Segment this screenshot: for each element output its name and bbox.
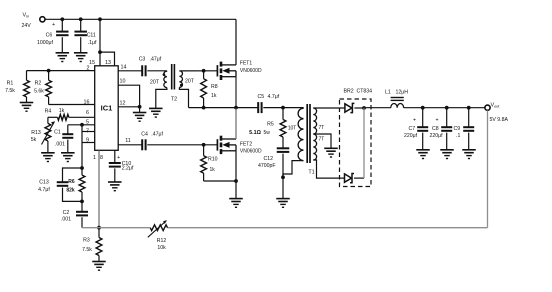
svg-text:8: 8 <box>100 155 103 161</box>
svg-text:T1: T1 <box>308 169 314 175</box>
capacitor C10 <box>109 150 134 182</box>
node pin12 gnd <box>138 105 142 109</box>
pin 10 label <box>120 79 126 85</box>
svg-text:+: + <box>117 155 120 161</box>
svg-text:.1: .1 <box>456 133 460 139</box>
node C8 top <box>445 106 449 110</box>
node feedback-R3 <box>97 226 101 230</box>
node R10 top <box>202 143 206 147</box>
resistor R4 <box>45 108 95 120</box>
wire rail to FET1 drain <box>235 19 237 65</box>
svg-text:CT834: CT834 <box>357 89 373 95</box>
svg-text:7.5k: 7.5k <box>5 88 15 94</box>
svg-text:L1: L1 <box>385 90 391 96</box>
transformer T1 core <box>307 104 310 163</box>
node snubber bottom <box>281 175 285 179</box>
svg-text:10: 10 <box>120 79 126 85</box>
transformer T1 secondary <box>308 108 324 175</box>
pin 16 label <box>84 100 90 106</box>
ground pin12 <box>133 113 147 122</box>
ground R13 <box>41 153 55 162</box>
wire pin16 <box>49 104 95 106</box>
svg-text:.47μf: .47μf <box>151 132 163 138</box>
wire C5 to T1 <box>263 107 303 109</box>
wire pin9 <box>82 142 95 144</box>
capacitor C12 <box>258 137 289 177</box>
svg-text:12: 12 <box>120 100 126 106</box>
ground C1 <box>61 153 75 162</box>
svg-text:14: 14 <box>121 64 127 70</box>
wire node5 down <box>81 125 83 168</box>
svg-text:C8: C8 <box>432 126 439 132</box>
capacitor C11 <box>74 19 97 52</box>
capacitor C6 <box>37 19 69 52</box>
wire feedback bottom left <box>82 227 150 229</box>
svg-text:C5: C5 <box>258 94 265 100</box>
node C9 top <box>467 106 471 110</box>
node pin15-13 <box>98 50 102 54</box>
resistor R6 <box>66 168 85 201</box>
svg-text:C11: C11 <box>87 32 96 38</box>
svg-text:C6: C6 <box>46 32 53 38</box>
svg-text:5.6k: 5.6k <box>34 88 44 94</box>
wire pin1 down <box>98 150 100 227</box>
node R8 bottom <box>202 106 206 110</box>
svg-text:VN0600D: VN0600D <box>240 149 262 155</box>
svg-text:4.7μf: 4.7μf <box>38 187 50 193</box>
wire T1 sec bottom <box>313 160 344 178</box>
svg-text:R3: R3 <box>83 238 90 244</box>
capacitor C7 <box>404 108 428 150</box>
svg-text:C4: C4 <box>141 132 148 138</box>
svg-text:20T: 20T <box>150 80 160 86</box>
svg-text:6: 6 <box>86 110 89 116</box>
capacitor C8 <box>430 108 453 150</box>
svg-text:12μH: 12μH <box>396 90 409 96</box>
svg-text:1: 1 <box>93 155 96 161</box>
svg-text:13: 13 <box>105 60 111 66</box>
wire top rail <box>45 18 236 20</box>
svg-text:C12: C12 <box>264 156 274 162</box>
ground C9 <box>462 150 476 159</box>
capacitor C3 <box>118 56 167 76</box>
node rail-C11 <box>79 17 83 21</box>
node snubber top <box>281 106 285 110</box>
wire pin2 <box>27 70 95 72</box>
capacitor C1 <box>54 125 73 153</box>
svg-text:BR2: BR2 <box>344 89 354 95</box>
ground R1 <box>20 103 34 112</box>
ground C10 <box>108 182 122 191</box>
svg-text:C13: C13 <box>39 179 49 185</box>
svg-text:1k: 1k <box>211 93 217 99</box>
wire L1 to Vout <box>404 107 485 109</box>
terminal Vin <box>22 13 46 30</box>
svg-text:+: + <box>413 117 416 123</box>
wire feedback bottom right <box>168 227 488 229</box>
svg-text:.001: .001 <box>55 141 65 147</box>
wire pin12 <box>118 106 139 108</box>
svg-text:24V: 24V <box>22 23 32 29</box>
svg-text:+: + <box>436 117 439 123</box>
wire snubber gnd <box>282 177 284 198</box>
svg-text:R4: R4 <box>45 108 52 114</box>
wire feedback right <box>487 110 489 227</box>
svg-text:220μf: 220μf <box>430 133 444 139</box>
wire rail to pin15 <box>99 19 101 66</box>
capacitor C5 <box>258 94 280 113</box>
wire T2 return <box>189 107 237 109</box>
svg-text:VN0600D: VN0600D <box>240 68 262 74</box>
node pin5-7 <box>80 123 84 127</box>
wire half-bridge to FET2 drain <box>235 108 237 139</box>
svg-text:.001: .001 <box>61 216 71 222</box>
node rail-C6 <box>60 17 64 21</box>
svg-text:C9: C9 <box>454 126 461 132</box>
resistor R1 <box>5 71 29 103</box>
svg-text:5w: 5w <box>264 130 271 136</box>
node FET2 source-R10 <box>234 179 238 183</box>
wire D1 cathode <box>354 107 364 109</box>
svg-text:C3: C3 <box>139 56 146 62</box>
ground T1 primary <box>276 199 290 208</box>
svg-text:R12: R12 <box>157 238 167 244</box>
resistor R2 <box>34 71 51 105</box>
svg-text:4.7μf: 4.7μf <box>268 94 280 100</box>
pin 7 label <box>86 128 89 134</box>
svg-text:R13: R13 <box>31 130 41 136</box>
diode D2 <box>345 174 355 183</box>
svg-text:7.5k: 7.5k <box>82 247 92 253</box>
svg-text:7T: 7T <box>319 136 325 142</box>
svg-text:5.1Ω: 5.1Ω <box>249 130 261 136</box>
node rail-IC <box>98 17 102 21</box>
svg-text:10T: 10T <box>288 125 297 131</box>
wire diode join <box>363 108 365 178</box>
ground C7 <box>416 150 430 159</box>
ground C6 <box>56 53 70 62</box>
svg-text:7T: 7T <box>319 125 325 131</box>
svg-text:+: + <box>52 22 55 28</box>
svg-text:C1: C1 <box>54 130 61 136</box>
node R8 top <box>202 69 206 73</box>
wire T2 to gate1 <box>181 70 218 72</box>
transformer T2 secondary <box>171 71 195 108</box>
svg-text:FET1: FET1 <box>240 61 252 67</box>
svg-text:FET2: FET2 <box>240 141 252 147</box>
op-amp IC1 body <box>95 66 119 151</box>
svg-text:R10: R10 <box>208 157 218 163</box>
pin 5 label <box>86 120 89 126</box>
terminal Vout <box>485 102 509 123</box>
svg-text:11: 11 <box>125 138 131 144</box>
svg-text:T2: T2 <box>171 97 177 103</box>
wire pin12 gnd down <box>139 107 141 113</box>
resistor R12 variable <box>148 221 168 251</box>
wire T1 sec top <box>313 107 345 109</box>
resistor R5 <box>249 108 286 137</box>
node C7 top <box>421 106 425 110</box>
node D1 out <box>362 106 366 110</box>
phase dot T2 primary <box>163 73 166 76</box>
diode D1 <box>345 103 355 112</box>
pin 1 label <box>93 155 96 161</box>
pin 12 label <box>120 100 126 106</box>
wire FET2 source down <box>235 151 237 199</box>
phase dot T2 secondary <box>180 84 183 87</box>
svg-text:C7: C7 <box>409 126 416 132</box>
rectifier BR2 box <box>340 89 373 187</box>
transistor FET2 <box>217 136 262 155</box>
svg-text:C2: C2 <box>63 210 70 216</box>
ground center tap <box>324 148 338 157</box>
ground C11 <box>74 53 88 62</box>
capacitor C4 <box>118 132 217 151</box>
wire source node to C5 <box>236 107 258 109</box>
ground FET2 <box>229 199 243 208</box>
svg-text:82k: 82k <box>66 187 75 193</box>
wire T1 center tap <box>313 134 331 148</box>
svg-text:5V 9.8A: 5V 9.8A <box>490 117 509 123</box>
pin 9 label <box>86 138 89 144</box>
pin 2 label <box>87 66 90 72</box>
wire D2 cathode <box>354 177 364 179</box>
transformer T2 primary <box>150 71 167 108</box>
node R2 top <box>47 69 51 73</box>
pin 8 label <box>100 155 103 161</box>
pin 14 label <box>121 64 127 70</box>
transformer T1 primary <box>283 108 304 178</box>
svg-text:1k: 1k <box>210 167 216 173</box>
wire pin7 stub <box>82 131 95 133</box>
svg-text:20T: 20T <box>185 79 195 85</box>
resistor R3 <box>82 228 102 262</box>
capacitor C2 <box>61 201 88 227</box>
svg-text:R6: R6 <box>68 179 75 185</box>
pin 15 label <box>89 60 95 66</box>
wire FET1 source down <box>235 77 237 108</box>
svg-text:.1μf: .1μf <box>88 40 97 46</box>
wire pin5 <box>68 124 95 126</box>
svg-text:220μf: 220μf <box>404 133 418 139</box>
svg-text:15: 15 <box>89 60 95 66</box>
svg-text:1000μf: 1000μf <box>37 40 54 46</box>
capacitor C13 <box>38 168 82 201</box>
svg-text:R5: R5 <box>267 121 274 127</box>
wire pin13 stub <box>100 52 115 66</box>
inductor L1 <box>385 90 408 108</box>
svg-text:.47μf: .47μf <box>150 56 162 62</box>
transistor FET1 <box>217 61 262 81</box>
svg-text:R2: R2 <box>35 81 42 87</box>
svg-text:IC1: IC1 <box>101 104 113 113</box>
pin 13 label <box>105 60 111 66</box>
ground T2 <box>149 108 163 117</box>
ground R3 <box>92 262 106 271</box>
node half-bridge <box>234 106 238 110</box>
svg-text:R1: R1 <box>7 81 14 87</box>
svg-text:10k: 10k <box>157 245 166 251</box>
pin 6 label <box>86 110 89 116</box>
svg-text:2.2μf: 2.2μf <box>122 166 134 172</box>
ground C8 <box>440 150 454 159</box>
svg-text:R8: R8 <box>211 84 218 90</box>
resistor R8 <box>201 71 218 108</box>
resistor R13 variable <box>31 117 55 152</box>
transformer T2 core <box>172 64 175 90</box>
wire D1 to L1 <box>364 107 391 109</box>
node R6-C13 top <box>80 166 84 170</box>
capacitor C9 <box>454 108 475 150</box>
svg-text:5k: 5k <box>31 137 37 143</box>
resistor R10 <box>201 145 236 181</box>
wire pin10 <box>118 85 139 107</box>
node R6-C13 bottom <box>80 200 84 204</box>
pin 11 label <box>125 138 131 144</box>
svg-text:1k: 1k <box>59 108 65 114</box>
svg-text:4700pF: 4700pF <box>258 163 276 169</box>
